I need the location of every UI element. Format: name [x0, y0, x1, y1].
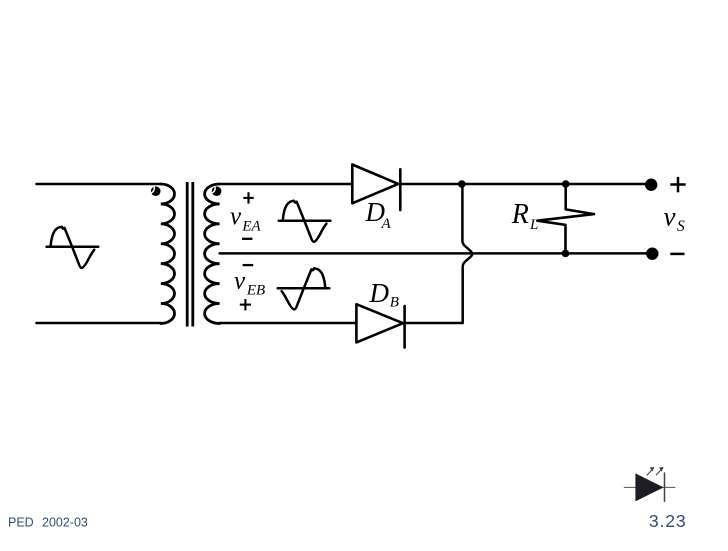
wire DB output — [405, 322, 462, 325]
svg-text:v: v — [234, 267, 246, 294]
source sine symbol — [47, 227, 99, 268]
svg-text:3.23: 3.23 — [649, 511, 687, 531]
junction node RL bottom — [562, 250, 570, 258]
wire secondary top — [220, 183, 353, 186]
transformer core — [187, 182, 193, 327]
svg-text:v: v — [230, 203, 242, 230]
svg-text:B: B — [390, 294, 399, 310]
minus sign vEA — [242, 238, 252, 240]
plus sign vEB — [240, 299, 251, 310]
wire DA output — [400, 183, 651, 186]
LED next-slide icon — [624, 468, 676, 502]
terminal positive — [645, 179, 657, 191]
wire primary top — [37, 183, 162, 186]
diode DA — [352, 165, 400, 211]
terminal negative — [646, 248, 658, 260]
svg-text:v: v — [664, 201, 676, 231]
junction node RL top — [562, 180, 570, 188]
resistor RL — [537, 184, 594, 253]
wire center tap — [220, 252, 652, 255]
wire vertical with hop over center tap — [462, 184, 472, 323]
svg-text:2002-03: 2002-03 — [42, 516, 88, 530]
svg-text:R: R — [511, 199, 529, 230]
polarity dot primary — [151, 186, 161, 196]
svg-text:EA: EA — [241, 219, 261, 235]
sine symbol vEA — [279, 201, 331, 242]
junction node top left — [458, 180, 466, 188]
svg-text:EB: EB — [246, 283, 265, 299]
plus sign vEA — [243, 192, 253, 203]
transformer secondary winding — [205, 184, 220, 323]
diode DB — [356, 304, 404, 347]
svg-text:D: D — [369, 278, 390, 308]
minus sign vEB — [243, 264, 254, 266]
plus sign output — [670, 177, 685, 192]
svg-text:L: L — [529, 217, 538, 233]
svg-text:A: A — [381, 216, 392, 232]
svg-text:S: S — [677, 218, 685, 235]
svg-text:PED: PED — [8, 516, 34, 530]
wire primary bottom — [37, 322, 162, 325]
minus sign output — [670, 253, 684, 256]
transformer primary winding — [161, 184, 175, 323]
polarity dot secondary — [212, 186, 222, 196]
sine symbol vEB (inverted) — [278, 268, 330, 309]
wire secondary bottom — [220, 322, 357, 325]
